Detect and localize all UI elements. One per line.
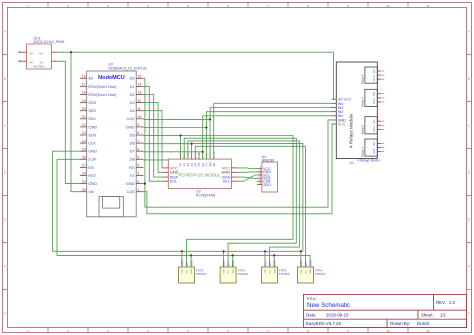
wire TTP4 VCC tap <box>300 251 302 267</box>
MCU module U2 NODEMCU_V1_ESP12E <box>80 63 148 217</box>
svg-text:VCC: VCC <box>265 268 267 273</box>
svg-text:I/O: I/O <box>270 270 272 273</box>
svg-text:22: 22 <box>82 123 86 127</box>
svg-text:C: C <box>372 126 376 128</box>
wire U3 GND to BME GND <box>237 171 257 173</box>
svg-text:D5: D5 <box>130 132 136 137</box>
wire bus VCC (NodeMCU GND25 / TTP row / U3 P4) <box>53 151 303 251</box>
svg-text:CMD: CMD <box>88 124 97 129</box>
svg-text:3: 3 <box>137 172 139 176</box>
svg-text:RSV(Don't Use): RSV(Don't Use) <box>88 84 117 89</box>
junction TTP1 VCC <box>181 250 183 252</box>
svg-text:VCC: VCC <box>301 268 303 273</box>
svg-text:NO: NO <box>372 142 376 146</box>
svg-text:GND: GND <box>274 268 276 273</box>
svg-text:10: 10 <box>137 115 141 119</box>
svg-text:+Vo: +Vo <box>38 51 43 55</box>
svg-text:28: 28 <box>82 172 86 176</box>
svg-text:3.3V: 3.3V <box>126 116 135 121</box>
svg-text:TTP223: TTP223 <box>279 272 290 276</box>
junction GND9/IN2 <box>205 126 207 128</box>
svg-text:A: A <box>468 30 470 34</box>
svg-text:D7: D7 <box>130 149 136 154</box>
svg-text:BME280: BME280 <box>262 158 274 162</box>
junction D7/IN1 <box>202 151 204 153</box>
svg-text:1: 1 <box>137 188 139 192</box>
svg-text:2018-09-10: 2018-09-10 <box>326 313 349 318</box>
wire relays IN4 to U3 P8 <box>214 103 332 159</box>
svg-text:18: 18 <box>82 91 86 95</box>
touch key module TTP3 TTP223 <box>262 260 290 283</box>
svg-text:5: 5 <box>137 156 139 160</box>
svg-text:7: 7 <box>137 139 139 143</box>
wire GND9 to relays IN2 and U3 P6 <box>143 112 331 159</box>
wire D2 to U3 SDA <box>143 95 162 178</box>
svg-text:F: F <box>468 265 470 269</box>
svg-text:D6: D6 <box>130 141 136 146</box>
wire TTP3 I/O to U3 P3 <box>188 141 300 267</box>
wire D5 tap to P1 net <box>143 135 180 137</box>
svg-text:13: 13 <box>137 91 141 95</box>
svg-text:REV:: REV: <box>436 300 446 305</box>
svg-text:EN: EN <box>88 165 94 170</box>
relay board U1 4 Relays Module <box>332 62 385 165</box>
svg-text:10: 10 <box>386 4 390 8</box>
junction D5/P1 net <box>179 134 181 136</box>
svg-text:Vin: Vin <box>88 189 94 194</box>
wire +5V to NodeMCU Vin <box>71 52 80 192</box>
svg-text:D4: D4 <box>130 108 136 113</box>
svg-text:E: E <box>468 218 470 222</box>
svg-text:10: 10 <box>386 329 390 333</box>
svg-text:8: 8 <box>137 131 139 135</box>
touch key module TTP4 TTP223 <box>298 260 326 283</box>
svg-text:2: 2 <box>137 180 139 184</box>
svg-text:1.0: 1.0 <box>449 300 456 305</box>
svg-text:GND: GND <box>88 181 97 186</box>
wire D0/GND2 long rail to relays GND <box>143 78 336 207</box>
svg-text:GND: GND <box>126 181 135 186</box>
svg-text:D3: D3 <box>130 100 136 105</box>
svg-text:19: 19 <box>82 99 86 103</box>
svg-text:SD1: SD1 <box>88 116 97 121</box>
svg-text:4: 4 <box>137 164 139 168</box>
wire U3 SDA to BME SDA crossover <box>237 177 257 178</box>
svg-text:NC: NC <box>372 150 376 154</box>
svg-text:24: 24 <box>82 139 86 143</box>
junction TTP4 VCC <box>300 250 302 252</box>
svg-text:16: 16 <box>82 75 86 79</box>
junction GND2 rail <box>144 183 146 185</box>
svg-text:Date:: Date: <box>306 313 317 318</box>
svg-text:HLK-PM01: HLK-PM01 <box>33 65 45 68</box>
wire TTP2 VCC tap <box>223 251 225 267</box>
svg-text:3.3V: 3.3V <box>88 157 97 162</box>
svg-text:TX: TX <box>130 173 135 178</box>
svg-text:NO: NO <box>372 92 376 96</box>
sensor module U4 BME280 <box>257 155 278 192</box>
svg-text:CLK: CLK <box>88 141 96 146</box>
svg-text:SDO: SDO <box>263 183 271 187</box>
svg-text:A: A <box>4 30 6 34</box>
junction TTP1 GND <box>190 254 192 256</box>
wire TTP1 GND tap <box>190 255 192 267</box>
svg-text:SD0: SD0 <box>88 132 97 137</box>
touch key module TTP1 TTP223 <box>179 260 207 283</box>
svg-text:NC: NC <box>372 128 376 132</box>
svg-text:4 Relays Module: 4 Relays Module <box>349 113 354 148</box>
wire U3 P5a stub <box>198 152 200 159</box>
svg-text:RX: RX <box>129 165 135 170</box>
svg-text:C: C <box>372 148 376 150</box>
wire D7 to relays IN1 and U3 P5 <box>143 116 331 159</box>
svg-text:TTP223: TTP223 <box>237 272 248 276</box>
svg-text:21: 21 <box>82 115 86 119</box>
svg-text:NC: NC <box>372 78 376 82</box>
svg-text:D1: D1 <box>130 84 136 89</box>
svg-text:6: 6 <box>137 147 139 151</box>
svg-text:Relay 4: Relay 4 <box>361 74 365 84</box>
svg-text:26: 26 <box>82 156 86 160</box>
svg-text:11: 11 <box>426 329 429 333</box>
svg-text:11: 11 <box>426 4 429 8</box>
svg-text:New Schematic: New Schematic <box>307 302 350 309</box>
svg-text:RSV(Don't Use): RSV(Don't Use) <box>88 92 117 97</box>
svg-text:25: 25 <box>82 147 86 151</box>
svg-text:GND: GND <box>233 268 235 273</box>
svg-text:SCL: SCL <box>170 179 179 184</box>
svg-text:14: 14 <box>137 83 141 87</box>
svg-text:B: B <box>468 77 470 81</box>
junction D6/P4 net <box>191 143 193 145</box>
svg-text:GND: GND <box>191 268 193 273</box>
svg-text:20: 20 <box>82 107 86 111</box>
svg-text:29: 29 <box>82 180 86 184</box>
svg-text:NodeMCU: NodeMCU <box>98 75 125 81</box>
touch key module TTP2 TTP223 <box>220 260 248 283</box>
svg-text:15: 15 <box>137 75 141 79</box>
svg-text:B: B <box>4 77 6 81</box>
svg-text:PCF8574AN: PCF8574AN <box>196 193 216 197</box>
wire NodeMCU 3.3V1 to relays VCC <box>143 124 336 214</box>
title block <box>304 295 467 328</box>
svg-text:TTP223: TTP223 <box>315 272 326 276</box>
svg-text:NO: NO <box>372 120 376 124</box>
svg-text:SD2: SD2 <box>88 108 97 113</box>
svg-text:RST: RST <box>88 173 97 178</box>
junction 3.3V10/IN3 <box>209 118 211 120</box>
wire U3 P4 to VCC bus <box>192 144 303 252</box>
svg-text:D2: D2 <box>130 92 136 97</box>
wire bus GND (NodeMCU 3.3V26 / TTP row) <box>57 159 310 267</box>
svg-text:AC: AC <box>30 51 34 55</box>
svg-text:12: 12 <box>137 99 141 103</box>
junction TTP3 GND <box>273 254 275 256</box>
svg-text:A0: A0 <box>212 163 216 167</box>
svg-text:D8: D8 <box>130 157 136 162</box>
svg-text:27: 27 <box>82 164 86 168</box>
svg-text:F: F <box>4 265 6 269</box>
svg-text:SCL: SCL <box>222 179 231 184</box>
power module DC1 ACDC-5-HLK_PM01 <box>18 36 65 69</box>
svg-text:VCC: VCC <box>224 268 226 273</box>
svg-text:C: C <box>372 98 376 100</box>
svg-text:30: 30 <box>82 188 86 192</box>
junction TTP2 GND <box>232 254 234 256</box>
wire U3 SCL to BME SCL crossover <box>237 175 257 181</box>
wire DC1 -Vo to NodeMCU GND29 <box>58 61 80 183</box>
svg-text:17: 17 <box>82 83 86 87</box>
svg-text:NO: NO <box>372 69 376 73</box>
svg-text:1/1: 1/1 <box>440 313 447 318</box>
svg-text:VCC: VCC <box>338 123 346 127</box>
wire TTP1 I/O to U3 P1 <box>181 136 294 268</box>
svg-text:3.3V: 3.3V <box>126 189 135 194</box>
wire D1 to U3 SCL <box>143 86 162 181</box>
svg-text:GND: GND <box>310 268 312 273</box>
svg-text:TITLE:: TITLE: <box>306 297 317 301</box>
svg-text:PCF8574 I2C MODUL: PCF8574 I2C MODUL <box>179 173 221 178</box>
wire GND2 tap <box>143 183 145 185</box>
wire 3.3V10 to relays IN3 and U3 P7 <box>143 108 331 160</box>
svg-text:Sheet:: Sheet: <box>421 313 434 318</box>
wire D6 tap to P4 net <box>143 143 191 145</box>
wire +5V from DC1 to relays JD-VCC <box>58 52 337 99</box>
svg-text:Relay 1: Relay 1 <box>361 147 365 157</box>
svg-text:Drawn By:: Drawn By: <box>390 321 410 326</box>
svg-text:U1: U1 <box>350 161 354 165</box>
svg-text:GND: GND <box>88 149 97 154</box>
IO expander module U3 PCF8574 IIC <box>162 151 237 197</box>
svg-text:bintick: bintick <box>417 321 430 326</box>
wire D4 to U3 VCC <box>143 111 162 168</box>
junction TTP2 VCC <box>222 250 224 252</box>
svg-text:Relay 2: Relay 2 <box>361 124 365 134</box>
svg-text:NC: NC <box>372 100 376 104</box>
svg-text:E: E <box>4 218 6 222</box>
junction +5V at DC1 <box>70 51 72 53</box>
wire TTP3 VCC tap <box>264 251 266 267</box>
wire D3 to U3 GND <box>143 103 162 173</box>
svg-text:NODEMCU_V1_ESP12E: NODEMCU_V1_ESP12E <box>109 67 148 71</box>
svg-text:-Vo: -Vo <box>39 60 43 64</box>
svg-text:SD3: SD3 <box>88 100 97 105</box>
wire U3 VCC to BME VCC <box>237 167 257 170</box>
wire TTP1 VCC tap <box>181 251 183 267</box>
wire D8 to U3 edge <box>143 159 168 161</box>
wire TTP2 GND tap <box>232 255 234 267</box>
svg-text:I/O: I/O <box>306 270 308 273</box>
svg-text:AC: AC <box>30 60 34 64</box>
svg-text:11: 11 <box>137 107 141 111</box>
svg-text:D0: D0 <box>130 76 136 81</box>
wire TTP3 GND tap <box>273 255 275 267</box>
wire TTP2 I/O to U3 P2 <box>184 138 296 267</box>
svg-text:23: 23 <box>82 131 86 135</box>
junction TTP3 VCC <box>264 250 266 252</box>
svg-text:I/O: I/O <box>228 270 230 273</box>
svg-text:C: C <box>372 75 376 77</box>
svg-text:4 Relays Modul: 4 Relays Modul <box>358 158 380 162</box>
svg-text:VCC: VCC <box>182 268 184 273</box>
svg-text:TTP223: TTP223 <box>196 272 207 276</box>
svg-text:9: 9 <box>137 123 139 127</box>
svg-text:A0: A0 <box>88 76 94 81</box>
svg-text:ACDC-5-HLK_PM01: ACDC-5-HLK_PM01 <box>34 40 65 44</box>
svg-text:GND: GND <box>126 124 135 129</box>
wire TTP4 I/O to U3 P5 <box>195 146 305 267</box>
svg-text:EasyEDA V5.7.26: EasyEDA V5.7.26 <box>306 321 341 326</box>
svg-text:I/O: I/O <box>187 270 189 273</box>
svg-text:Relay 3: Relay 3 <box>361 97 365 107</box>
